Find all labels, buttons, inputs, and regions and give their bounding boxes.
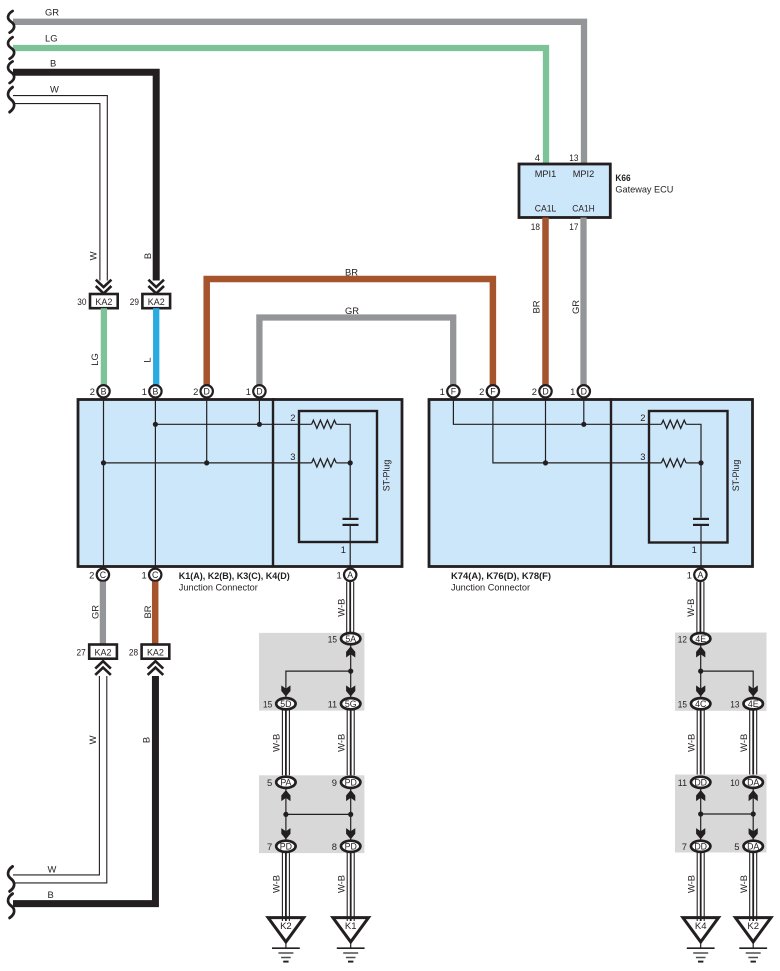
arrow into 4E13 bbox=[749, 685, 758, 696]
svg-text:9: 9 bbox=[332, 777, 337, 788]
wire node to 5G bbox=[350, 671, 352, 697]
wire DA down to node bbox=[752, 789, 754, 814]
wire W-B 7PD to K2 bbox=[282, 853, 289, 921]
svg-text:2: 2 bbox=[89, 570, 94, 581]
svg-text:4E: 4E bbox=[695, 634, 706, 644]
svg-text:2: 2 bbox=[532, 386, 537, 397]
wire GR bus between junction connectors bbox=[259, 318, 453, 385]
svg-text:F: F bbox=[490, 387, 496, 397]
svg-text:K74(A), K76(D), K78(F): K74(A), K76(D), K78(F) bbox=[451, 570, 551, 581]
connector block gray D bbox=[675, 775, 767, 853]
svg-text:1: 1 bbox=[341, 544, 346, 555]
wire W-B 5DA to K2b bbox=[750, 853, 757, 921]
wire node to 7PD bbox=[285, 814, 287, 839]
svg-text:KA2: KA2 bbox=[147, 647, 164, 658]
connector oval 4C bbox=[691, 698, 710, 709]
shield chevron into KA2 30 bbox=[96, 280, 112, 294]
node dot PA branch bbox=[283, 812, 288, 817]
svg-text:7: 7 bbox=[267, 841, 272, 852]
box1 node dot 2D level3 bbox=[204, 460, 209, 465]
node dot DA branch bbox=[751, 811, 756, 816]
box2 wire 1F to level2 bbox=[453, 398, 661, 424]
ground symbol K2 bbox=[272, 948, 300, 961]
svg-text:2: 2 bbox=[90, 386, 95, 397]
svg-text:3: 3 bbox=[640, 451, 645, 462]
box1 pin 1C bbox=[149, 569, 161, 581]
box1 node dot 2B level3 bbox=[101, 460, 106, 465]
wire GR from CA1H to junction connector 2 pin 1D bbox=[580, 218, 586, 385]
svg-text:W-B: W-B bbox=[738, 875, 749, 893]
gateway ECU K66 box bbox=[519, 164, 610, 218]
wire W-B box1 1A to 5A bbox=[347, 582, 354, 633]
svg-text:W-B: W-B bbox=[336, 599, 347, 617]
svg-text:PD: PD bbox=[280, 842, 292, 852]
box1 pin 2D bbox=[201, 385, 213, 397]
svg-text:K66: K66 bbox=[615, 172, 630, 183]
svg-text:1: 1 bbox=[440, 386, 445, 397]
svg-text:DD: DD bbox=[694, 842, 707, 852]
box2 capacitor bbox=[693, 519, 709, 525]
connector block gray B bbox=[259, 775, 364, 853]
wire BR bus between junction connectors bbox=[207, 279, 493, 385]
wire BR from CA1L to junction connector 2 pin 2D bbox=[542, 218, 549, 385]
box1 level 3 wire bbox=[104, 462, 312, 464]
box1 pin 2C bbox=[97, 569, 109, 581]
box1 pin 1B bbox=[149, 385, 161, 397]
svg-text:2: 2 bbox=[640, 412, 645, 423]
wire W-B box2 1A to 4E bbox=[697, 582, 704, 633]
svg-text:C: C bbox=[100, 570, 107, 580]
svg-text:GR: GR bbox=[45, 7, 59, 18]
wire 5A to node bbox=[350, 645, 352, 671]
svg-text:A: A bbox=[347, 570, 353, 580]
svg-text:3: 3 bbox=[290, 451, 295, 462]
wire LG bus top bbox=[13, 48, 546, 165]
arrow into 5D bbox=[281, 685, 290, 696]
box1 internal wire 1B to 1C bbox=[154, 398, 156, 568]
svg-text:5A: 5A bbox=[345, 634, 356, 644]
svg-text:D: D bbox=[581, 387, 587, 397]
connector oval DD11 bbox=[691, 777, 710, 788]
svg-text:K1: K1 bbox=[345, 921, 357, 932]
box1 pin 1A bbox=[344, 569, 356, 581]
svg-text:A: A bbox=[697, 570, 703, 580]
arrow into 8PD bbox=[346, 828, 355, 839]
box1 wire resistor3 to node bbox=[336, 462, 350, 464]
wire W-B 4E13 to DA bbox=[750, 710, 757, 775]
svg-text:PA: PA bbox=[280, 778, 291, 788]
wire W-B 4C to DD bbox=[697, 710, 704, 775]
svg-text:10: 10 bbox=[730, 777, 739, 788]
svg-text:C: C bbox=[152, 570, 159, 580]
box2 wire capacitor to pin 1A bbox=[700, 525, 702, 568]
svg-text:B: B bbox=[152, 387, 158, 397]
connector break squiggle W lower bbox=[8, 866, 14, 891]
svg-text:1: 1 bbox=[141, 570, 146, 581]
wire B lower bbox=[13, 676, 155, 904]
connector oval PD8 bbox=[341, 841, 360, 852]
svg-text:W-B: W-B bbox=[271, 875, 282, 893]
svg-text:GR: GR bbox=[90, 605, 101, 619]
svg-text:11: 11 bbox=[678, 777, 687, 788]
ST-Plug divider box2 bbox=[610, 398, 612, 566]
ground point K4 bbox=[683, 918, 719, 942]
svg-text:BR: BR bbox=[142, 605, 153, 618]
box1 wire resistor2 to vertical bbox=[336, 424, 350, 518]
box1 internal wire 2B to 2C bbox=[103, 398, 105, 568]
ground point K1 bbox=[333, 918, 369, 942]
box1 node dot 1B level2 bbox=[153, 422, 158, 427]
connector oval 5D bbox=[276, 698, 295, 709]
connector KA2 28 bbox=[142, 645, 170, 659]
svg-text:W: W bbox=[87, 735, 98, 744]
wire W-B 5D to PA bbox=[282, 710, 289, 776]
svg-text:W: W bbox=[48, 864, 57, 875]
box1 wire capacitor to pin 1A bbox=[349, 525, 351, 568]
svg-text:30: 30 bbox=[77, 296, 86, 307]
svg-text:BR: BR bbox=[530, 300, 541, 313]
box2 resistor level 3 bbox=[661, 459, 686, 467]
wire node PA-PD horizontal bbox=[286, 813, 351, 815]
node dot PD branch bbox=[348, 812, 353, 817]
arrow into 4E bbox=[696, 646, 705, 657]
box2 resistor level 2 bbox=[661, 420, 686, 428]
wire node DD-DA horizontal bbox=[701, 813, 754, 815]
box1 internal wire from 1D bbox=[258, 398, 260, 424]
arrow into DA bbox=[749, 790, 758, 801]
wire DD down to node bbox=[700, 789, 702, 814]
wire node to 5D bbox=[286, 671, 351, 697]
svg-text:B: B bbox=[101, 387, 107, 397]
svg-text:DA: DA bbox=[747, 842, 759, 852]
svg-text:D: D bbox=[204, 387, 210, 397]
wire node to 5DA bbox=[752, 814, 754, 840]
svg-text:1: 1 bbox=[687, 570, 692, 581]
connector block gray A bbox=[259, 633, 364, 711]
wire node to 4C bbox=[700, 671, 702, 697]
connector break squiggle LG bbox=[8, 37, 14, 59]
svg-text:Gateway ECU: Gateway ECU bbox=[615, 184, 673, 195]
wire GR bus top bbox=[13, 22, 584, 165]
svg-text:K4: K4 bbox=[695, 921, 707, 932]
svg-text:PD: PD bbox=[345, 778, 357, 788]
wire node to 7DD bbox=[700, 814, 702, 840]
box2 node dot 2D level3 bbox=[543, 460, 548, 465]
svg-text:LG: LG bbox=[45, 33, 58, 44]
connector oval PD9 bbox=[341, 777, 360, 788]
svg-text:K2: K2 bbox=[280, 921, 292, 932]
connector oval PD7 bbox=[276, 841, 295, 852]
svg-text:LG: LG bbox=[89, 353, 100, 366]
svg-text:W-B: W-B bbox=[685, 599, 696, 617]
junction connector 1 box bbox=[78, 400, 402, 567]
wire W-B 7DD to K4 bbox=[697, 853, 704, 921]
ground symbol K4 bbox=[687, 948, 715, 961]
svg-text:W-B: W-B bbox=[686, 734, 697, 752]
wire node to 4E13 bbox=[701, 671, 754, 697]
wire W bus top (white wire outline) bbox=[13, 96, 107, 281]
svg-text:W-B: W-B bbox=[336, 875, 347, 893]
box1 node dot level3 right bbox=[348, 460, 353, 465]
svg-text:13: 13 bbox=[569, 152, 578, 163]
svg-text:7: 7 bbox=[682, 841, 687, 852]
arrow into 4C bbox=[696, 685, 705, 696]
svg-text:ST-Plug: ST-Plug bbox=[730, 460, 741, 492]
box1 node dot 1D level2 bbox=[257, 422, 262, 427]
shield chevron from KA2 28 bbox=[148, 661, 164, 675]
svg-text:W: W bbox=[50, 84, 59, 95]
box2 wire resistor2 to vertical bbox=[686, 424, 701, 518]
svg-text:D: D bbox=[542, 387, 548, 397]
connector KA2 30 bbox=[90, 294, 118, 308]
wire W-B 8PD to K1 bbox=[347, 853, 354, 921]
connector oval DA10 bbox=[744, 777, 763, 788]
connector oval DA5 bbox=[744, 841, 763, 852]
svg-text:18: 18 bbox=[531, 221, 540, 232]
connector KA2 27 bbox=[89, 645, 117, 659]
box1 level 2 wire bbox=[155, 423, 311, 425]
connector oval 4E12 bbox=[691, 633, 710, 644]
box1 resistor level 2 bbox=[312, 420, 337, 428]
ground point K2b bbox=[735, 918, 771, 942]
svg-text:BR: BR bbox=[345, 267, 358, 278]
arrow into PD bbox=[346, 790, 355, 801]
ground K4 stem bbox=[700, 942, 702, 948]
svg-text:GR: GR bbox=[345, 305, 359, 316]
svg-text:1: 1 bbox=[142, 386, 147, 397]
node dot 4E branch bbox=[698, 669, 703, 674]
ST-Plug inner box1 bbox=[299, 411, 377, 542]
svg-text:5G: 5G bbox=[345, 699, 357, 709]
wire L from KA2 29 to pin 1B bbox=[153, 308, 159, 385]
arrow into 5A bbox=[346, 646, 355, 657]
svg-text:28: 28 bbox=[129, 647, 138, 658]
svg-text:W-B: W-B bbox=[271, 734, 282, 752]
svg-text:4C: 4C bbox=[695, 699, 707, 709]
svg-text:2: 2 bbox=[193, 386, 198, 397]
box2 node dot 1D level2 bbox=[581, 422, 586, 427]
svg-text:MPI2: MPI2 bbox=[573, 168, 595, 179]
svg-text:27: 27 bbox=[77, 647, 86, 658]
svg-text:CA1H: CA1H bbox=[572, 203, 595, 214]
svg-text:KA2: KA2 bbox=[95, 296, 112, 307]
connector oval 4E13 bbox=[744, 698, 763, 709]
box2 wire from 2D bbox=[545, 398, 547, 463]
svg-text:Junction Connector: Junction Connector bbox=[179, 582, 258, 593]
wire W lower (white wire outline) bbox=[13, 676, 107, 883]
svg-text:8: 8 bbox=[332, 841, 337, 852]
box1 pin 2B bbox=[97, 385, 109, 397]
svg-text:DA: DA bbox=[747, 778, 759, 788]
svg-text:B: B bbox=[142, 253, 153, 259]
svg-text:Junction Connector: Junction Connector bbox=[451, 582, 530, 593]
arrow into 7PD bbox=[281, 828, 290, 839]
arrow into 5G bbox=[346, 685, 355, 696]
svg-text:CA1L: CA1L bbox=[535, 203, 557, 214]
svg-text:5: 5 bbox=[734, 841, 739, 852]
svg-text:1: 1 bbox=[570, 386, 575, 397]
svg-text:W-B: W-B bbox=[686, 875, 697, 893]
connector block gray C bbox=[675, 633, 767, 711]
svg-text:17: 17 bbox=[569, 221, 578, 232]
svg-text:ST-Plug: ST-Plug bbox=[381, 460, 392, 492]
svg-text:1: 1 bbox=[246, 386, 251, 397]
connector oval PA bbox=[276, 777, 295, 788]
svg-text:KA2: KA2 bbox=[95, 647, 112, 658]
box2 wire resistor3 to node bbox=[686, 462, 701, 464]
box1 internal wire from 2D bbox=[206, 398, 208, 463]
connector break squiggle GR bbox=[8, 11, 14, 33]
svg-text:15: 15 bbox=[678, 698, 687, 709]
box2 pin 2D bbox=[539, 385, 551, 397]
connector break squiggle B bbox=[8, 61, 14, 83]
junction connector 2 box bbox=[429, 400, 753, 567]
svg-text:B: B bbox=[50, 58, 56, 69]
svg-text:W-B: W-B bbox=[738, 734, 749, 752]
shield chevron into KA2 29 bbox=[148, 280, 164, 294]
svg-text:L: L bbox=[141, 357, 152, 362]
wire PA down to node bbox=[285, 789, 287, 815]
svg-text:2: 2 bbox=[290, 412, 295, 423]
connector oval DD7 bbox=[691, 841, 710, 852]
ground point K2 bbox=[268, 918, 304, 942]
svg-text:B: B bbox=[48, 889, 54, 900]
svg-text:D: D bbox=[256, 387, 262, 397]
arrow into PA bbox=[281, 790, 290, 801]
connector break squiggle B lower bbox=[8, 894, 14, 918]
svg-text:PD: PD bbox=[345, 842, 357, 852]
connector oval 5G bbox=[341, 698, 360, 709]
ST-Plug inner box2 bbox=[649, 411, 728, 543]
ground K2 stem bbox=[285, 942, 287, 948]
box2 wire 2F to level3 bbox=[493, 398, 662, 463]
svg-text:4: 4 bbox=[535, 152, 540, 163]
node dot DD branch bbox=[698, 811, 703, 816]
box2 pin 1A bbox=[694, 569, 706, 581]
wire PD down to node bbox=[350, 789, 352, 815]
wire LG from KA2 30 to pin 2B bbox=[101, 308, 107, 385]
connector oval 5A bbox=[341, 633, 360, 644]
wire GR from pin 2C to KA2 27 bbox=[100, 582, 106, 645]
svg-text:W: W bbox=[88, 251, 99, 260]
svg-text:15: 15 bbox=[263, 698, 272, 709]
svg-text:MPI1: MPI1 bbox=[535, 168, 557, 179]
ST-Plug divider box1 bbox=[272, 398, 274, 566]
svg-text:1: 1 bbox=[692, 544, 697, 555]
svg-text:2: 2 bbox=[479, 386, 484, 397]
wire W-B 5G to PD bbox=[347, 710, 354, 776]
box2 pin 1F bbox=[447, 385, 459, 397]
svg-text:1: 1 bbox=[336, 570, 341, 581]
svg-text:B: B bbox=[140, 737, 151, 743]
connector KA2 29 bbox=[142, 294, 170, 308]
shield chevron from KA2 27 bbox=[95, 661, 111, 675]
svg-text:5: 5 bbox=[267, 777, 272, 788]
svg-text:12: 12 bbox=[678, 633, 687, 644]
svg-text:4E: 4E bbox=[748, 699, 759, 709]
connector break squiggle W bbox=[8, 87, 14, 112]
wire BR from pin 1C to KA2 28 bbox=[152, 582, 159, 645]
box2 pin 2F bbox=[487, 385, 499, 397]
box2 node dot level3 right bbox=[698, 460, 703, 465]
svg-text:K2: K2 bbox=[747, 921, 759, 932]
ground symbol K2b bbox=[739, 948, 767, 961]
box1 capacitor bbox=[343, 519, 359, 525]
node dot 5A branch bbox=[348, 669, 353, 674]
box1 pin 1D bbox=[253, 385, 265, 397]
wire B bus top bbox=[13, 72, 156, 280]
wire node to 8PD bbox=[350, 814, 352, 839]
svg-text:W-B: W-B bbox=[336, 734, 347, 752]
arrow into 5DA bbox=[749, 828, 758, 839]
ground K1 stem bbox=[350, 942, 352, 948]
svg-text:GR: GR bbox=[570, 300, 581, 314]
svg-text:15: 15 bbox=[328, 633, 337, 644]
box2 wire from 1D bbox=[583, 398, 585, 424]
svg-text:F: F bbox=[451, 387, 457, 397]
box1 resistor level 3 bbox=[312, 459, 337, 467]
ground K2b stem bbox=[752, 942, 754, 948]
svg-text:29: 29 bbox=[130, 296, 139, 307]
svg-text:K1(A), K2(B), K3(C), K4(D): K1(A), K2(B), K3(C), K4(D) bbox=[179, 570, 290, 581]
arrow into 7DD bbox=[696, 828, 705, 839]
wire 4E to node bbox=[700, 645, 702, 671]
svg-text:13: 13 bbox=[730, 698, 739, 709]
ground symbol K1 bbox=[337, 948, 365, 961]
svg-text:5D: 5D bbox=[280, 699, 291, 709]
svg-text:KA2: KA2 bbox=[148, 296, 165, 307]
arrow into DD bbox=[696, 790, 705, 801]
svg-text:DD: DD bbox=[694, 778, 707, 788]
svg-text:11: 11 bbox=[328, 698, 337, 709]
box2 pin 1D bbox=[578, 385, 590, 397]
